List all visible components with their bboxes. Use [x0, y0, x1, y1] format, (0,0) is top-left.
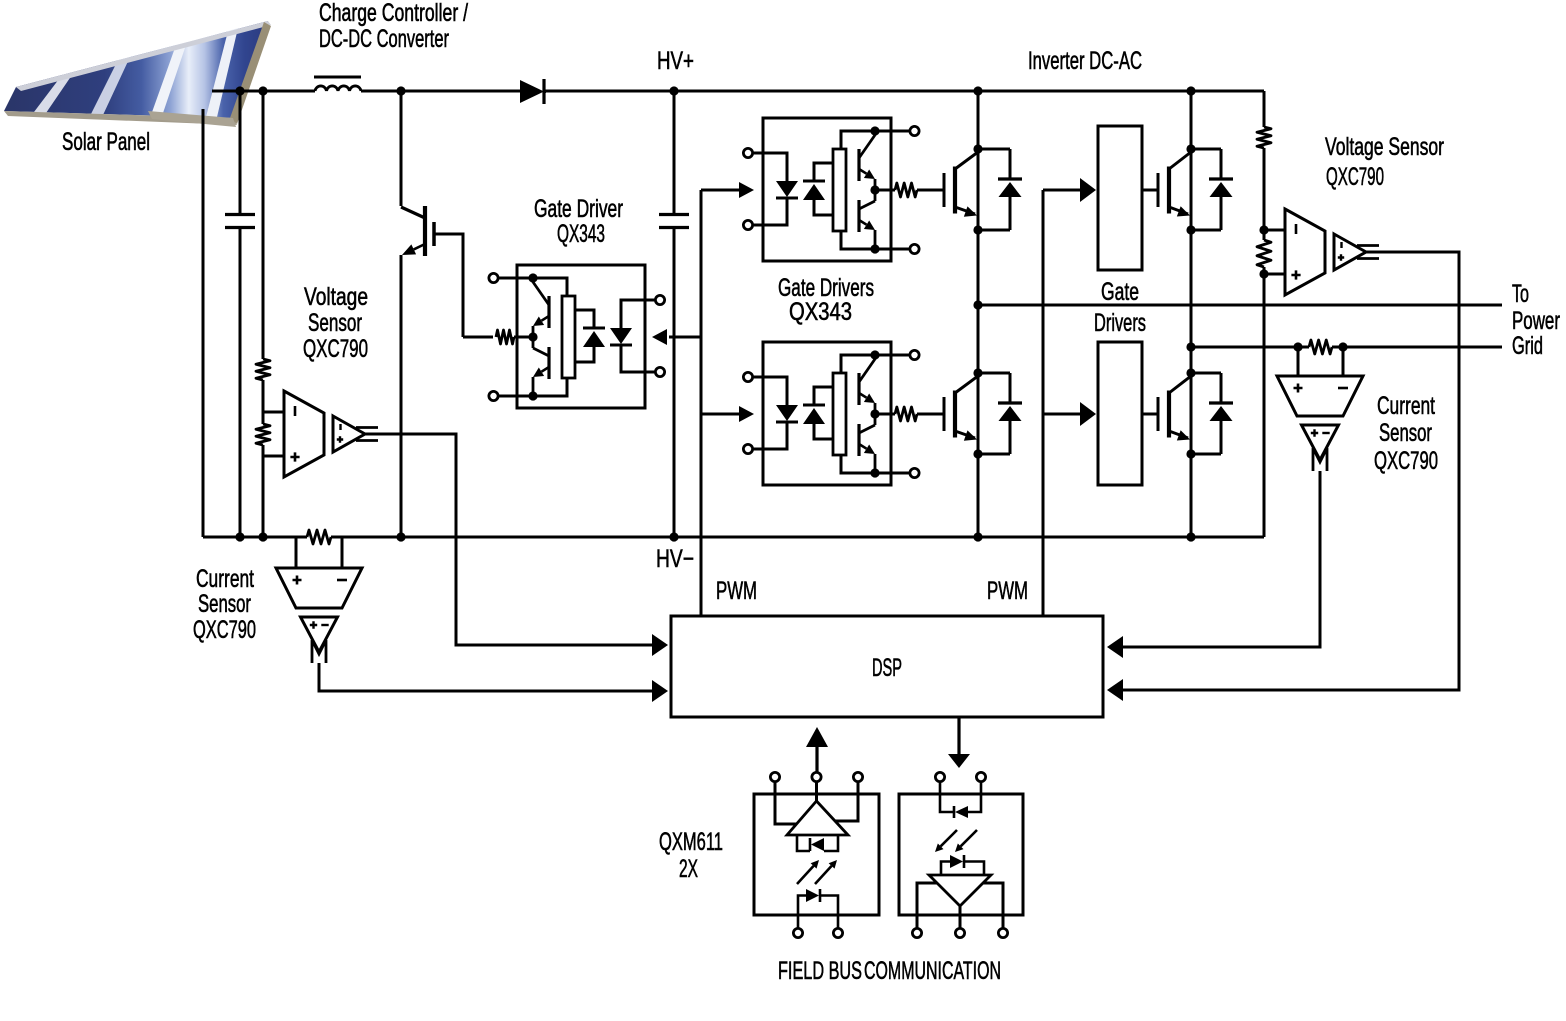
svg-text:FIELD BUS: FIELD BUS	[778, 957, 862, 985]
feed arrow into gate driver rect lower	[1080, 402, 1096, 426]
svg-text:PWM: PWM	[987, 577, 1028, 605]
svg-text:QX343: QX343	[789, 298, 852, 326]
driver chip block	[833, 149, 846, 231]
wire PWM branch to U3	[701, 413, 739, 416]
wire PWM branch to U2	[701, 189, 739, 192]
output divider tap dots	[1259, 225, 1268, 234]
current sensor output wire right	[1123, 471, 1320, 647]
svg-text:QXC790: QXC790	[1374, 447, 1438, 475]
arrow into DSP right 2	[1107, 679, 1123, 701]
freewheel diode D4	[1220, 373, 1223, 403]
output transistor pair	[857, 149, 860, 181]
gate driver block upper right	[1098, 126, 1142, 270]
photodiode wiring	[575, 310, 594, 328]
svg-text:PWM: PWM	[716, 577, 757, 605]
svg-text:Voltage: Voltage	[304, 283, 368, 311]
wire diode to HV+ node	[544, 90, 546, 93]
fiber TX top terminals	[770, 772, 779, 781]
PV voltage divider line	[262, 91, 265, 359]
IGBT Q2	[943, 397, 946, 431]
IGBT Q1	[943, 173, 946, 207]
wire PV positive to bus	[212, 90, 240, 93]
svg-text:HV+: HV+	[657, 47, 694, 75]
input filter capacitor line	[239, 91, 242, 215]
PWM feed arrow into U1	[652, 329, 667, 345]
gate output resistor	[514, 336, 533, 339]
driver chip block	[833, 373, 846, 455]
output divider resistor R4	[1257, 240, 1271, 267]
PV shunt sense stubs	[295, 537, 298, 568]
voltage sensor input wires left	[263, 411, 284, 414]
wire rect to Q4 gate	[1142, 413, 1158, 416]
input pin circles	[743, 148, 752, 157]
LED (emitter diode)	[776, 181, 798, 197]
svg-text:DSP: DSP	[872, 654, 902, 682]
LED input wiring	[752, 153, 787, 181]
svg-text:QXC790: QXC790	[1326, 163, 1384, 191]
fiber RX amplifier	[929, 875, 991, 906]
fiber TX amp wiring	[815, 782, 818, 801]
gate output resistor	[875, 189, 895, 192]
photodiode	[583, 327, 605, 330]
gate driver IC outline	[763, 118, 891, 261]
output pin circles	[910, 126, 919, 135]
internal junction dots	[528, 273, 537, 282]
DC link capacitor	[659, 213, 689, 216]
svg-text:HV−: HV−	[656, 545, 694, 573]
wire U2 resistor to Q1 gate	[917, 189, 944, 192]
light reception arrows	[941, 830, 957, 846]
fiber TX LED	[806, 889, 819, 902]
grid shunt resistor	[1309, 340, 1332, 354]
current sense amplifier	[276, 568, 362, 608]
feed arrow into gate driver rect upper	[1080, 178, 1096, 202]
voltage sensor output wire left	[365, 434, 652, 645]
fiber RX bottom terminals	[912, 928, 921, 937]
svg-text:Sensor: Sensor	[198, 590, 251, 618]
svg-text:QXC790: QXC790	[303, 335, 368, 363]
wire U3 resistor to Q2 gate	[917, 413, 944, 416]
voltage sensor input wires right	[1264, 229, 1285, 232]
inductor core bar	[314, 76, 361, 79]
svg-text:Grid: Grid	[1512, 332, 1543, 360]
LED input wiring	[752, 377, 787, 405]
isolation marks	[312, 640, 326, 663]
photodiode wiring	[814, 387, 833, 405]
svg-text:2X: 2X	[679, 855, 698, 883]
supply rails	[841, 131, 914, 149]
gate driver IC outline	[517, 265, 645, 408]
solar panel illustration	[4, 21, 271, 127]
divider resistor R1	[256, 359, 270, 380]
svg-text:To: To	[1512, 280, 1529, 308]
internal junction dots	[870, 350, 879, 359]
voltage sensor isolation stage	[1334, 234, 1366, 270]
phase B midpoint dot	[1186, 342, 1195, 351]
HV+ hold capacitor line upper	[673, 91, 676, 215]
output divider resistor R3	[1257, 127, 1271, 148]
boost IGBT	[423, 206, 427, 256]
wire branch to gate driver rect lower	[1043, 413, 1080, 416]
freewheel diode D1	[1009, 149, 1012, 179]
gate driver IC outline	[763, 342, 891, 485]
svg-text:Current: Current	[196, 565, 254, 593]
voltage sensor isolation stage	[333, 416, 365, 452]
svg-text:QXM611: QXM611	[659, 828, 723, 856]
PV shunt resistor	[307, 530, 331, 544]
HV+ hold capacitor line lower	[673, 228, 676, 538]
phase A rail upper	[977, 91, 980, 305]
boost transistor emitter rail	[400, 255, 403, 537]
wire divider bottom	[262, 445, 265, 537]
svg-text:COMMUNICATION: COMMUNICATION	[864, 957, 1001, 985]
output pin circles	[489, 273, 498, 282]
voltage sensor amplifier	[1285, 209, 1325, 295]
phase A midpoint dot	[973, 300, 982, 309]
phase B rail	[1190, 91, 1193, 537]
wire inductor to diode	[361, 90, 520, 93]
freewheel diode D2	[1009, 373, 1012, 403]
svg-text:Current: Current	[1377, 392, 1435, 420]
dots Q2	[973, 368, 982, 377]
DSP to fiber TX arrow	[815, 747, 818, 772]
wire PWM branch to U1	[669, 336, 701, 339]
svg-text:Voltage Sensor: Voltage Sensor	[1325, 133, 1444, 161]
photodiode	[803, 180, 825, 183]
PWM distribution line left	[700, 190, 703, 616]
svg-text:Gate Driver: Gate Driver	[534, 195, 623, 223]
grid shunt sense stubs	[1297, 347, 1300, 376]
isolation marks	[1313, 448, 1327, 471]
output transistor pair	[857, 373, 860, 405]
arrow into DSP left 1	[652, 634, 668, 656]
wire HV+ bus right section	[978, 90, 1264, 93]
svg-text:Inverter DC-AC: Inverter DC-AC	[1028, 47, 1142, 75]
photodiode wiring	[814, 163, 833, 181]
fiber RX photodiode	[950, 855, 963, 868]
fiber receiver box	[899, 794, 1023, 915]
grid line phase B	[1191, 346, 1298, 349]
supply rails	[841, 355, 914, 373]
input pin circles	[743, 372, 752, 381]
voltage sensor output wire right	[1123, 252, 1459, 690]
internal junction dots	[870, 126, 879, 135]
wire rect to Q3 gate	[1142, 189, 1158, 192]
driver chip block	[562, 296, 575, 378]
dots Q1	[973, 144, 982, 153]
output voltage divider line	[1263, 91, 1266, 127]
svg-text:Drivers: Drivers	[1094, 309, 1146, 337]
current sensor isolation stage	[301, 617, 338, 652]
current sense amplifier	[1277, 376, 1363, 416]
dots Q3	[1186, 144, 1195, 153]
PWM distribution line right	[1042, 190, 1045, 616]
supply rails	[494, 278, 567, 296]
phase A rail lower	[977, 305, 980, 537]
input pin circles	[655, 295, 664, 304]
gate output resistor	[875, 413, 895, 416]
junction dots on HV+ bus	[235, 86, 244, 95]
photodiode	[803, 404, 825, 407]
current sensor isolation stage	[1302, 425, 1339, 460]
fiber TX LED bracket	[798, 896, 806, 929]
svg-text:QX343: QX343	[557, 220, 605, 248]
input filter capacitor	[225, 213, 255, 216]
grid line phase A	[978, 304, 1502, 307]
gate driver block lower right	[1098, 342, 1142, 485]
light emission arrows	[797, 866, 814, 884]
fiber RX top terminals	[935, 772, 944, 781]
DSP to fiber RX arrow	[957, 717, 960, 754]
output transistor pair	[547, 296, 550, 328]
wire PV negative leg	[202, 109, 205, 537]
boost transistor collector rail	[400, 91, 403, 206]
wire bus to inductor	[240, 90, 315, 93]
fiber RX input diode bracket	[940, 782, 954, 812]
isolation output bars	[356, 426, 378, 429]
DSP block	[671, 616, 1103, 717]
svg-text:Gate: Gate	[1101, 278, 1139, 306]
boost IGBT gate wire	[434, 234, 463, 337]
fiber TX amplifier	[787, 801, 848, 835]
HV- bus dots	[235, 532, 244, 541]
fiber TX monitor diode bracket	[797, 835, 810, 851]
fiber TX monitor diode	[811, 838, 824, 851]
fiber TX bottom terminals	[793, 928, 802, 937]
fiber transmitter box	[754, 794, 879, 915]
fiber RX input diode	[955, 806, 968, 818]
HV- bus	[203, 536, 307, 539]
output pin circles	[910, 350, 919, 359]
svg-text:Sensor: Sensor	[308, 309, 362, 337]
svg-text:DC-DC Converter: DC-DC Converter	[319, 25, 449, 53]
inductor	[315, 86, 361, 91]
svg-text:Charge Controller /: Charge Controller /	[319, 0, 468, 27]
fiber RX output wiring	[917, 883, 937, 928]
IGBT Q4	[1157, 397, 1160, 431]
dots Q4	[1186, 368, 1195, 377]
svg-text:Sensor: Sensor	[1379, 419, 1432, 447]
arrow into DSP left 2	[652, 680, 668, 702]
arrow into DSP right 1	[1107, 636, 1123, 658]
current sensor output wire left	[319, 663, 652, 691]
fiber RX photodiode bracket	[941, 862, 950, 876]
svg-text:Solar Panel: Solar Panel	[62, 128, 150, 156]
grid shunt sense dots	[1293, 342, 1302, 351]
LED input wiring	[621, 300, 656, 328]
LED (emitter diode)	[776, 405, 798, 421]
wire divider mid	[262, 380, 265, 424]
divider resistor R2	[256, 424, 270, 445]
LED (emitter diode)	[610, 328, 632, 344]
IGBT Q3	[1157, 173, 1160, 207]
boost diode	[520, 80, 544, 103]
wire branch to gate driver rect upper	[1043, 189, 1080, 192]
svg-text:QXC790: QXC790	[193, 616, 256, 644]
isolation output bars	[1357, 244, 1379, 247]
gate driver U1 output wire	[463, 336, 493, 339]
PWM feed arrow into U2	[739, 182, 754, 198]
PWM feed arrow into U3	[739, 406, 754, 422]
voltage sensor amplifier	[284, 391, 324, 477]
svg-text:Power: Power	[1512, 307, 1560, 335]
freewheel diode D3	[1220, 149, 1223, 179]
